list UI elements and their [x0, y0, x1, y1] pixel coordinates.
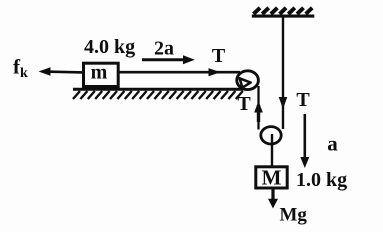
ceiling line [252, 15, 314, 18]
svg-text:a: a [327, 132, 338, 156]
wire axle to block M [271, 134, 273, 167]
svg-text:T: T [212, 45, 226, 67]
svg-text:m: m [91, 62, 108, 84]
arrow T on string [209, 68, 221, 76]
svg-text:T: T [237, 93, 251, 115]
ceiling hatch [254, 8, 313, 14]
wire string pulley down to movable pulley [257, 86, 259, 130]
movable pulley [261, 127, 281, 144]
block M [256, 167, 287, 188]
svg-text:M: M [262, 166, 282, 190]
arrow 2a [142, 58, 188, 61]
svg-text:fk: fk [13, 55, 28, 82]
pulley U1 at table edge [237, 71, 259, 90]
svg-text:4.0 kg: 4.0 kg [84, 36, 135, 58]
table line [73, 88, 243, 91]
wire string m to pulley [119, 71, 240, 74]
arrow Mg [271, 190, 274, 202]
block m [84, 63, 119, 86]
table hatch [73, 91, 243, 99]
pulley mount triangle [240, 78, 251, 87]
wire ceiling string [282, 17, 284, 129]
svg-text:1.0 kg: 1.0 kg [296, 169, 347, 191]
arrow f_k [45, 70, 83, 73]
arrow T down on ceiling string [279, 97, 288, 109]
svg-text:T: T [296, 89, 310, 111]
arrow a [303, 114, 306, 160]
arrow T up on left string [257, 105, 260, 122]
svg-text:2a: 2a [154, 38, 174, 60]
svg-text:Mg: Mg [280, 205, 308, 226]
